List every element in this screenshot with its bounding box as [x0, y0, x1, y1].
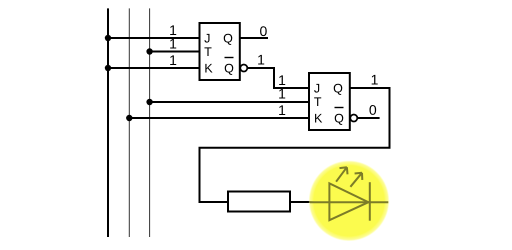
wire Qbar output U2 stub [358, 117, 380, 119]
pin label Q U1 [224, 34, 233, 45]
label 1 on J input U2 [279, 75, 285, 85]
pin label Q U2 [334, 84, 343, 95]
label 1 on T input U2 [279, 89, 285, 99]
flip-flop U1 box [200, 23, 240, 80]
pin label J U1 [204, 34, 209, 43]
wire Q output U1 [240, 37, 268, 39]
wire vertical bus line 1 [107, 8, 109, 237]
label 0 on Q output U1 [260, 26, 267, 36]
pin label K U1 [205, 64, 212, 73]
node junction dot K1 [105, 65, 111, 71]
LED emission arrow 2 [350, 173, 362, 187]
label 1 on Q output U2 [372, 75, 378, 85]
wire through LED [310, 201, 388, 203]
label 0 on Qbar output U2 [369, 105, 376, 115]
label 1 on T input U1 [170, 39, 176, 49]
wire K input U2 [129, 117, 309, 119]
wire Qbar U1 to J input U2 [248, 68, 309, 88]
pin label T U2 [314, 97, 321, 106]
node junction dot T2 [146, 99, 152, 105]
inverter bubble U2 Qbar [350, 115, 357, 122]
pin label T U1 [204, 47, 211, 56]
wire J input U1 [108, 37, 200, 39]
label 1 on K input U2 [279, 105, 285, 115]
node junction dot J1 [105, 35, 111, 41]
label 1 on K input U1 [170, 55, 176, 65]
wire K input U1 [108, 67, 200, 69]
wire T input U1 [150, 51, 200, 53]
label 1 on Qbar output U1 [258, 55, 264, 65]
LED emission arrow 1 [336, 167, 347, 182]
wire resistor to LED [290, 201, 316, 203]
pin label J U2 [314, 84, 319, 93]
wire T input U2 [150, 101, 309, 103]
inverter bubble U1 Qbar [240, 65, 247, 72]
pin label K U2 [315, 114, 322, 123]
overline of Qbar U2 [335, 107, 344, 109]
overline of Qbar U1 [225, 57, 234, 59]
flip-flop U2 box [309, 73, 350, 130]
wire vertical bus line 2 [128, 8, 130, 237]
resistor R1 [228, 192, 290, 212]
wire vertical bus line 3 [149, 8, 151, 237]
LED D1 triangle anode [329, 183, 368, 220]
LED D1 cathode bar [369, 182, 371, 221]
node junction dot T1 [146, 48, 152, 54]
LED glow disc [309, 160, 390, 241]
node junction dot K2 [126, 115, 132, 121]
wire Q output U2 to resistor [200, 88, 390, 202]
label 1 on J input U1 [170, 25, 176, 35]
pin label Qbar U2 [335, 114, 344, 125]
pin label Qbar U1 [225, 64, 234, 75]
